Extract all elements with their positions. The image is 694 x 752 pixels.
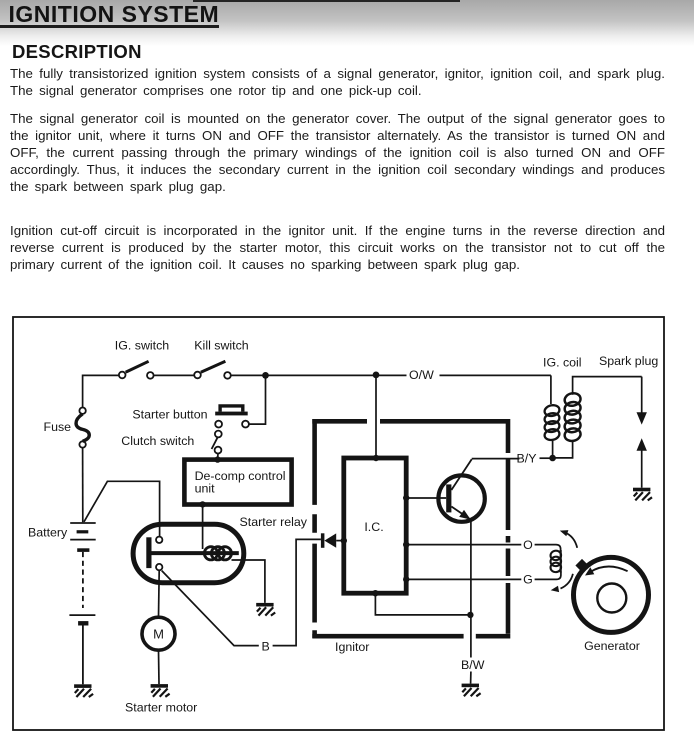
svg-text:IG. coil: IG. coil — [543, 355, 582, 369]
svg-text:IG. switch: IG. switch — [115, 339, 169, 353]
ground starter motor — [151, 684, 170, 697]
svg-text:Generator: Generator — [584, 639, 640, 653]
wire battery feed to relay — [84, 481, 160, 536]
svg-text:M: M — [153, 626, 164, 641]
relay contact plate — [146, 537, 151, 568]
spark plug gap wires — [641, 377, 643, 414]
wire G line — [406, 578, 521, 580]
svg-text:O: O — [523, 538, 533, 552]
wire motor to ground — [158, 650, 161, 684]
node emitter junction — [467, 612, 473, 618]
ignitor box dashed border bottom — [312, 634, 510, 639]
wire B/W drop — [470, 615, 472, 658]
svg-text:B/Y: B/Y — [517, 452, 537, 466]
wire bus kill switch to O/W label — [231, 374, 407, 376]
wire relay to starter motor — [158, 570, 161, 617]
relay contact lower — [156, 564, 162, 570]
relay armature line — [152, 551, 239, 555]
node IC bottom — [372, 590, 378, 596]
wire IC bottom to emitter line — [375, 596, 470, 615]
svg-text:Spark plug: Spark plug — [599, 354, 658, 368]
generator rotor tip — [575, 559, 588, 572]
starter button SW — [215, 412, 248, 416]
wire emitter down — [470, 520, 472, 615]
wire fuse to battery — [82, 448, 84, 523]
clutch switch SW — [215, 431, 222, 438]
generator outer — [574, 557, 649, 632]
node IC G out — [403, 576, 409, 582]
svg-text:Fuse: Fuse — [44, 420, 72, 434]
IG coil primary winding — [544, 404, 561, 441]
node B/Y junction — [549, 455, 556, 462]
IG coil secondary top — [573, 377, 642, 395]
relay contact upper — [156, 537, 162, 543]
node clutch to de-comp — [214, 456, 220, 462]
starter motor M — [142, 617, 175, 650]
wire relay coil to ground — [232, 560, 265, 603]
wire O/W label to IG coil — [440, 374, 551, 376]
battery BT1 — [69, 523, 95, 684]
svg-text:Starter motor: Starter motor — [125, 701, 197, 715]
svg-text:B: B — [262, 640, 270, 654]
svg-text:Starter button: Starter button — [132, 408, 207, 422]
generator inner — [597, 584, 626, 613]
ground relay coil — [256, 603, 275, 616]
IG coil secondary winding — [563, 392, 581, 443]
wire B to diode — [273, 539, 321, 645]
rotation arrow upper — [565, 532, 577, 548]
svg-text:I.C.: I.C. — [364, 520, 383, 534]
ignitor box dashed border right — [506, 419, 511, 634]
IG coil primary drop — [550, 375, 552, 404]
transistor Q1 — [438, 475, 484, 521]
wire main bus left corner + fuse drop — [83, 375, 119, 407]
pick-up coil — [550, 550, 562, 573]
wire de-comp to relay coil — [202, 504, 204, 549]
generator rotation arc — [591, 566, 628, 571]
ignitor box dashed border left — [312, 419, 317, 638]
svg-text:B/W: B/W — [461, 658, 485, 672]
wire O line — [406, 544, 521, 546]
node junction O/W — [373, 372, 380, 379]
ground spark plug — [633, 488, 652, 501]
ignitor box dashed border top — [312, 419, 510, 638]
wire B diagonal from relay — [162, 571, 259, 646]
node IC O out — [403, 541, 409, 547]
frame box — [13, 317, 664, 730]
de-comp control unit box — [184, 460, 291, 505]
ground B/W — [462, 684, 481, 697]
wire B/Y right segment — [540, 457, 550, 459]
starter relay body — [133, 524, 244, 583]
svg-text:Ignitor: Ignitor — [335, 640, 369, 654]
rotation arrow lower — [561, 574, 573, 589]
wire bus between IG and Kill switch — [154, 374, 194, 376]
wire starter button to bus — [249, 375, 266, 424]
wire secondary bottom — [553, 441, 573, 458]
kill switch — [194, 372, 201, 379]
wire collector to B/Y — [472, 458, 520, 460]
node junction at kill switch right — [262, 372, 269, 379]
node IC diode input — [341, 537, 347, 543]
relay coil — [204, 547, 231, 560]
svg-text:Battery: Battery — [28, 526, 68, 540]
wire IC to transistor base — [406, 497, 446, 499]
ground battery — [74, 684, 93, 697]
node IC base out — [403, 495, 409, 501]
svg-text:unit: unit — [195, 481, 216, 495]
node IC top — [373, 455, 379, 461]
svg-text:Clutch switch: Clutch switch — [121, 434, 194, 448]
svg-text:O/W: O/W — [409, 368, 434, 382]
node de-comp output — [199, 501, 205, 507]
wire O/W drop to I.C. — [375, 375, 377, 455]
svg-text:Starter relay: Starter relay — [240, 515, 308, 529]
fuse F1 — [79, 408, 85, 414]
IG. switch — [119, 372, 126, 379]
I.C. box U1 — [344, 458, 406, 593]
svg-text:Kill switch: Kill switch — [194, 339, 248, 353]
svg-text:G: G — [523, 572, 533, 586]
wire primary bottom — [552, 440, 554, 455]
diode D1 — [321, 533, 325, 548]
